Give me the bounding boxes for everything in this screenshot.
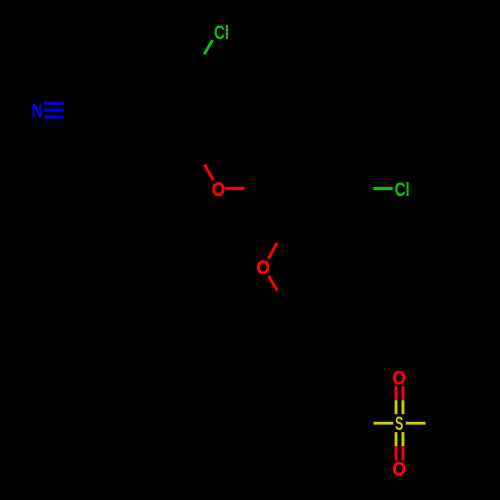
bond ring2-O2 (red half): [269, 243, 278, 259]
double bond S=O bottom, yellow halves: [396, 432, 403, 446]
bond CH2-S left (yellow half): [374, 422, 394, 425]
double bond S=O top, yellow halves: [396, 400, 403, 414]
svg-text:Cl: Cl: [214, 23, 229, 44]
bond ring1-O1 (red half): [204, 164, 213, 180]
svg-text:Cl: Cl: [395, 180, 410, 201]
triple bond N#C (blue halves): [44, 103, 63, 117]
svg-text:N: N: [32, 101, 43, 122]
bond O1-ring2 (red half): [225, 187, 244, 190]
double bond S=O bottom, red halves: [396, 446, 403, 460]
svg-text:O: O: [212, 180, 225, 201]
bond C-Cl top (green half): [204, 40, 212, 54]
svg-text:S: S: [395, 414, 403, 435]
bond ring2-Cl right (green half): [374, 187, 393, 190]
svg-text:O: O: [392, 369, 405, 390]
svg-text:O: O: [392, 459, 405, 480]
bond O2-CH2 (red half): [269, 276, 278, 291]
double bond S=O top, red halves: [396, 386, 403, 400]
bond S-CH3 right (yellow half): [406, 422, 426, 425]
svg-text:O: O: [256, 258, 269, 279]
